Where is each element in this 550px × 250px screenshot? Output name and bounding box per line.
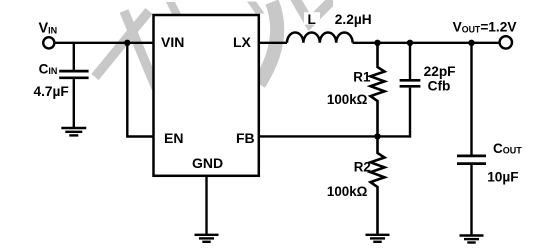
ground COUT [460,236,484,243]
watermark fragment P1 [166,2,181,14]
svg-text:22pF: 22pF [424,64,456,79]
svg-text:100kΩ: 100kΩ [327,184,368,199]
terminal VIN circle [43,37,54,48]
svg-text:100kΩ: 100kΩ [327,92,368,107]
wire VIN rail [55,42,153,44]
label background L [304,12,320,24]
svg-text:CIN: CIN [39,61,58,76]
wire Cfb lower to FB node [378,88,411,137]
capacitor COUT lower wire [470,165,472,236]
watermark diagonal stroke A [95,11,149,77]
capacitor COUT upper wire [470,43,472,155]
node junction R1 top [374,40,380,46]
capacitor CIN plates [59,71,88,78]
capacitor Cfb upper wire [409,43,411,79]
svg-text:R1: R1 [353,70,371,85]
terminal VOUT circle [500,36,512,48]
svg-text:VIN: VIN [161,34,184,50]
node junction FB [374,133,380,139]
resistor R2 [371,136,385,234]
svg-text:2.2µH: 2.2µH [335,12,372,27]
resistor R1 [371,43,385,137]
svg-text:EN: EN [164,130,183,146]
node junction Cfb top [407,40,413,46]
svg-text:COUT: COUT [493,141,522,156]
watermark diagonal stroke B [124,11,156,88]
node junction at CIN/EN [124,40,130,46]
ground CIN [61,128,86,135]
wire CIN branch upper [73,43,75,70]
svg-text:LX: LX [233,34,252,50]
svg-text:10µF: 10µF [487,170,518,185]
capacitor Cfb plates [400,80,421,86]
ground R2 [366,235,390,242]
wire CIN branch lower [73,79,75,128]
wire FB [259,135,378,137]
ground IC GND [195,235,219,242]
svg-text:Cfb: Cfb [428,79,451,94]
capacitor COUT plates [457,156,486,164]
svg-text:VIN: VIN [39,21,58,37]
watermark arc [259,2,277,84]
svg-text:4.7µF: 4.7µF [34,84,69,99]
wire inductor to VOUT [353,42,499,44]
watermark fragment P2 [247,2,265,14]
label background 2.2uH [333,0,375,28]
svg-text:FB: FB [236,130,255,146]
inductor L [287,32,353,42]
svg-text:GND: GND [192,155,223,171]
watermark V shape [295,0,338,23]
svg-text:VOUT=1.2V: VOUT=1.2V [453,19,518,34]
svg-text:R2: R2 [354,160,371,175]
wire EN branch [127,43,153,137]
IC U1 body [154,15,259,176]
wire GND stem [205,176,207,235]
svg-text:L: L [308,12,316,27]
node junction COUT top [468,40,474,46]
wire LX to inductor [259,42,287,44]
